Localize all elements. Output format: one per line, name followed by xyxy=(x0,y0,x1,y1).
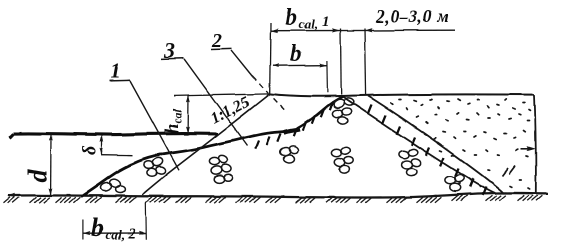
right edge small arrow xyxy=(521,146,536,151)
svg-text:cal,: cal, xyxy=(106,227,125,242)
svg-text:b: b xyxy=(290,41,302,67)
extension line at crest corner x=270 xyxy=(269,23,272,94)
dimension b_cal,2 xyxy=(83,231,147,235)
dimension d vertical xyxy=(49,134,53,195)
label d (rotated) xyxy=(23,169,52,183)
svg-text:d: d xyxy=(23,169,52,183)
svg-text:2,0–3,0 м: 2,0–3,0 м xyxy=(375,7,449,27)
b_cal,2 left extension xyxy=(82,220,84,240)
old slope surface wavy thick line (from toe up to crest) xyxy=(81,131,290,197)
label 2 with underline xyxy=(211,30,232,52)
crest line (top of embankment) xyxy=(270,94,535,96)
label delta (rotated) xyxy=(80,145,101,155)
stone cluster S2 xyxy=(143,157,166,177)
right edge vertical (cut line) xyxy=(535,95,536,194)
dimension b xyxy=(272,63,327,67)
svg-text:1: 1 xyxy=(110,58,121,83)
stone cluster S8 (near crest) xyxy=(332,97,354,124)
crest level reference line for h_cal xyxy=(174,94,270,96)
ground hatch strokes xyxy=(4,195,543,203)
dimension delta vertical xyxy=(100,135,104,154)
leader line for label 2 (solid then dashed) xyxy=(231,50,253,77)
b_cal,2 right extension xyxy=(145,202,148,240)
stone cluster S6 xyxy=(398,148,421,176)
svg-text:1: 1 xyxy=(322,14,330,30)
svg-text:b: b xyxy=(285,5,297,31)
svg-text:b: b xyxy=(91,213,104,242)
leader line for label 1 xyxy=(130,81,179,170)
svg-text:δ: δ xyxy=(80,145,101,155)
revetment band tick hatches xyxy=(368,105,486,195)
double slash mark in old embankment xyxy=(502,166,515,176)
svg-text:cal,: cal, xyxy=(299,17,318,32)
dark blob on old slope line xyxy=(284,129,300,132)
paving tick marks on upper old slope xyxy=(256,102,333,149)
water level line (thick) with left hook xyxy=(10,133,218,137)
delta settlement line xyxy=(101,154,133,157)
stone cluster S3 xyxy=(209,154,233,183)
design slope line 1:1.25 from crest corner to ground xyxy=(142,94,270,195)
label 3 with underline xyxy=(161,38,184,63)
leader line for label 3 xyxy=(184,59,248,146)
stone cluster S1 (toe area) xyxy=(100,178,126,194)
ground line with left arrow xyxy=(7,193,548,198)
dimension h_cal vertical xyxy=(186,95,190,133)
label b_cal,1 xyxy=(285,5,330,32)
sand dots texture in old embankment body xyxy=(391,99,530,189)
old slope revetment band - left edge xyxy=(343,97,496,194)
extension tick right of b xyxy=(326,61,329,93)
old slope revetment band - right edge xyxy=(368,96,504,194)
stone cluster S4 xyxy=(279,145,299,163)
stone cluster S7 (near band toe) xyxy=(445,174,465,192)
label h_cal (rotated) xyxy=(162,108,184,134)
label b_cal,2 xyxy=(91,213,136,242)
label 1 with underline xyxy=(109,58,131,83)
stone cluster S5 xyxy=(332,146,354,173)
top dimension line (b_cal,1 and 2,0-3,0 m) xyxy=(270,28,455,33)
extension line x=340 (band left edge) xyxy=(340,29,343,95)
svg-text:2: 2 xyxy=(127,226,136,242)
extension line x=364 (band right edge) xyxy=(365,29,366,96)
